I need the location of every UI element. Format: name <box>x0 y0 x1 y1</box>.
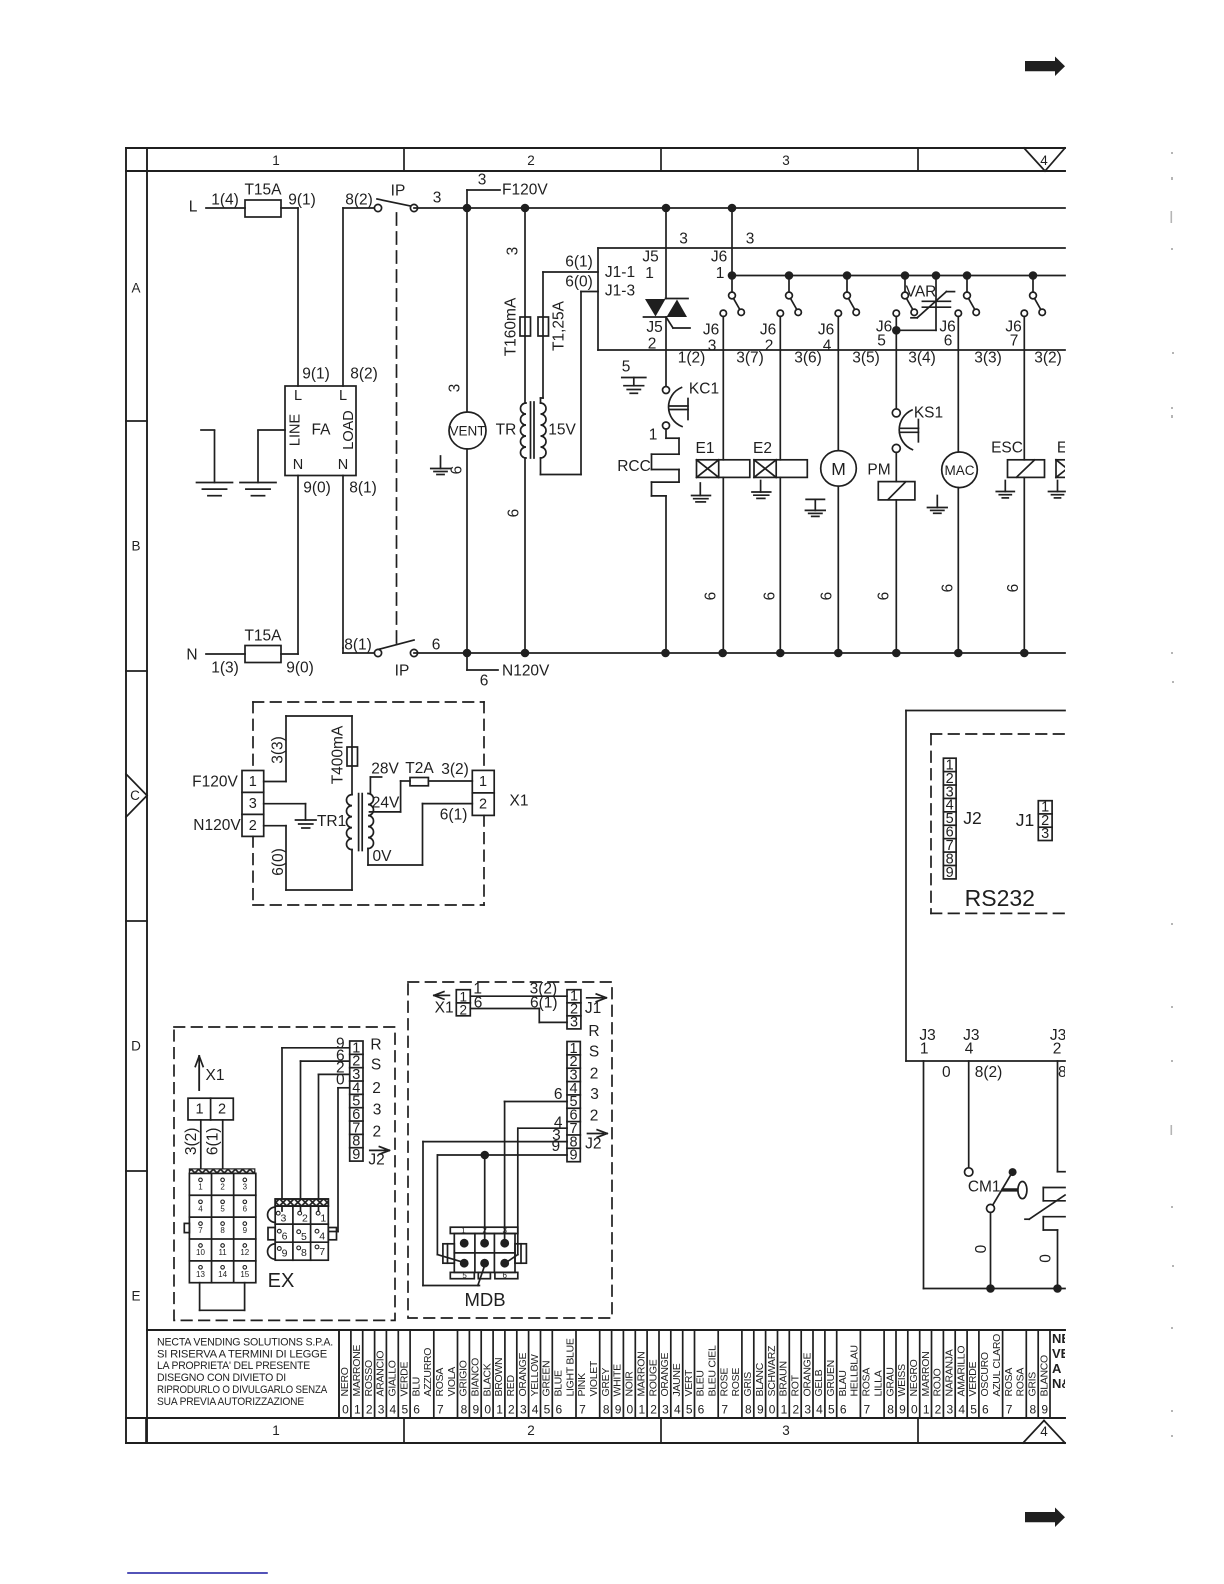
wire fuse to TR1 primary <box>351 766 353 795</box>
legend column 4 GIALLO <box>386 1330 398 1418</box>
relay coil ESC <box>1008 460 1045 478</box>
svg-text:9: 9 <box>551 1138 560 1155</box>
svg-text:MDB: MDB <box>464 1289 505 1310</box>
keypad EX 15 keys <box>189 1169 255 1283</box>
svg-text:2: 2 <box>590 1066 599 1083</box>
legend column 3 NARANJA <box>943 1330 955 1418</box>
svg-text:13: 13 <box>196 1270 205 1279</box>
svg-text:11: 11 <box>218 1248 227 1257</box>
wire X1-2 to J1-3 (MDB) <box>470 1009 567 1023</box>
relay contact J6-2 <box>777 271 801 316</box>
wire FA load N down to IP n-side <box>342 476 344 654</box>
label J3 2 (cut) <box>1050 1027 1066 1058</box>
wire J3-1 down to lower rail <box>924 1061 1066 1289</box>
svg-text:5: 5 <box>401 1403 408 1417</box>
svg-text:8(2): 8(2) <box>350 366 378 383</box>
legend column 9 WEISS <box>896 1330 908 1418</box>
legend column 7 ROSA <box>434 1330 458 1418</box>
arrow J1 (MDB) <box>585 994 606 1017</box>
svg-text:2: 2 <box>650 1403 657 1417</box>
svg-text:3(7): 3(7) <box>736 350 764 367</box>
solenoid E2 <box>753 440 807 477</box>
relay contact J6-5 <box>893 271 917 316</box>
svg-text:L: L <box>339 388 347 404</box>
wire TR secondary top to fuse T1,25A <box>540 398 542 403</box>
wire J6-4 to motor M <box>837 316 839 450</box>
fuse T160mA <box>503 297 531 356</box>
wire pin1 to T400mA <box>264 716 352 782</box>
svg-text:6(0): 6(0) <box>270 848 287 876</box>
legend column 1 BROWN <box>493 1330 505 1418</box>
bottom right solid arrow <box>1025 1508 1065 1528</box>
fuse T1,25A <box>538 300 568 351</box>
svg-text:3(5): 3(5) <box>852 350 880 367</box>
svg-text:3(2): 3(2) <box>441 761 469 778</box>
svg-text:NOIR: NOIR <box>624 1371 636 1397</box>
svg-text:BRAUN: BRAUN <box>778 1361 790 1396</box>
svg-text:2: 2 <box>792 1403 799 1417</box>
transformer TR1 <box>317 794 374 851</box>
svg-text:ORANGE: ORANGE <box>659 1352 671 1396</box>
arrow X1 (MDB) <box>434 992 454 1017</box>
svg-text:2: 2 <box>460 1002 468 1017</box>
svg-text:E2: E2 <box>753 440 772 457</box>
wire MDB pin7 <box>506 1128 567 1262</box>
legend column 5 GREEN <box>541 1330 553 1418</box>
svg-text:10: 10 <box>196 1248 205 1257</box>
junction bottom rail MAC <box>954 649 963 658</box>
junction lower rail right <box>1053 1284 1062 1293</box>
legend column 6 BLU <box>410 1330 434 1418</box>
relay contact J6-6 <box>955 271 979 316</box>
power supply dashed box TR1 <box>253 702 484 905</box>
svg-text:TR1: TR1 <box>317 813 346 830</box>
arrow J2 (EX) <box>368 1147 389 1169</box>
wire EX pin4 to keypad connector pin4 <box>329 1088 350 1232</box>
svg-text:BLUE: BLUE <box>553 1370 565 1397</box>
svg-text:VIOLA: VIOLA <box>446 1367 458 1397</box>
svg-text:9(1): 9(1) <box>302 366 330 383</box>
svg-text:9: 9 <box>352 1147 360 1163</box>
wire X1-1 to keypad <box>200 1120 202 1170</box>
internal bus J6 <box>732 275 1065 277</box>
svg-text:F120V: F120V <box>502 182 548 199</box>
svg-text:AMARILLO: AMARILLO <box>955 1346 967 1397</box>
bottom rail N120V <box>414 652 1065 654</box>
svg-text:15: 15 <box>240 1270 249 1279</box>
svg-text:8(1): 8(1) <box>344 637 372 654</box>
svg-text:SI RISERVA A TERMINI DI LEGGE: SI RISERVA A TERMINI DI LEGGE <box>157 1348 328 1360</box>
label 28V and tap stub <box>370 761 399 794</box>
svg-text:M: M <box>831 459 846 479</box>
label J6 4 <box>818 322 834 355</box>
svg-text:0: 0 <box>973 1244 990 1253</box>
wire J6-5 to KS1 <box>895 330 897 408</box>
svg-text:5: 5 <box>462 1271 467 1280</box>
legend column 8 GREY <box>600 1330 612 1418</box>
switch IP (line side) <box>374 183 417 212</box>
svg-text:T2A: T2A <box>405 760 434 777</box>
svg-text:3: 3 <box>708 338 717 355</box>
svg-text:14: 14 <box>218 1270 227 1279</box>
legend column 4 AMARILLO <box>955 1330 967 1418</box>
svg-text:6: 6 <box>413 1403 420 1417</box>
svg-text:3: 3 <box>782 1423 790 1438</box>
svg-text:8: 8 <box>1029 1403 1036 1417</box>
legend column 2 ROSSO <box>363 1330 375 1418</box>
heater resistor with strike (cut) <box>1025 1188 1065 1231</box>
svg-text:2: 2 <box>218 1101 226 1117</box>
svg-text:0: 0 <box>911 1403 918 1417</box>
svg-text:7: 7 <box>579 1403 586 1417</box>
svg-text:9: 9 <box>946 865 954 881</box>
legend column 4 YELLOW <box>529 1330 541 1418</box>
svg-text:2: 2 <box>479 797 487 813</box>
svg-text:6: 6 <box>876 592 893 601</box>
svg-text:6: 6 <box>506 509 523 518</box>
connector J1 (MDB) <box>567 989 581 1031</box>
wire rail to VENT <box>466 208 468 412</box>
legend column 0 NEGRO <box>908 1330 920 1418</box>
svg-text:0: 0 <box>769 1403 776 1417</box>
svg-text:ROJO: ROJO <box>932 1368 944 1396</box>
svg-text:4: 4 <box>823 338 832 355</box>
legend column 7 ROSA <box>1003 1330 1027 1418</box>
svg-text:6: 6 <box>944 333 953 350</box>
svg-text:1(2): 1(2) <box>678 350 706 367</box>
svg-text:9: 9 <box>757 1403 764 1417</box>
legend NECTA text block <box>157 1330 339 1418</box>
svg-text:CM1: CM1 <box>968 1179 1001 1196</box>
label J6 7 <box>1005 319 1021 350</box>
junction bottom rail ESC <box>1020 649 1029 658</box>
ground at VENT <box>440 456 442 469</box>
svg-text:6: 6 <box>840 1403 847 1417</box>
keypad bottom tab <box>200 1283 245 1311</box>
svg-text:8(1): 8(1) <box>349 480 377 497</box>
svg-text:BLANCO: BLANCO <box>1038 1355 1050 1397</box>
svg-text:3: 3 <box>1041 826 1049 842</box>
wire 6(1) fuse to J1-1 <box>543 272 598 317</box>
svg-text:SUA PREVIA AUTORIZZAZIONE: SUA PREVIA AUTORIZZAZIONE <box>157 1396 305 1408</box>
svg-text:OSCURO: OSCURO <box>979 1352 991 1396</box>
svg-text:7: 7 <box>864 1403 871 1417</box>
svg-text:1(3): 1(3) <box>211 660 239 677</box>
wire KS1 to PM <box>895 452 897 481</box>
svg-text:1: 1 <box>923 1403 930 1417</box>
ground at E1 <box>692 483 711 502</box>
svg-text:2: 2 <box>372 1123 381 1140</box>
svg-text:3: 3 <box>373 1102 382 1119</box>
legend column 1 MARRON <box>635 1330 647 1418</box>
svg-text:4: 4 <box>1040 1424 1048 1439</box>
svg-text:J6: J6 <box>703 322 719 339</box>
svg-text:0: 0 <box>1037 1254 1054 1263</box>
svg-text:T15A: T15A <box>244 628 282 645</box>
legend column 9 WHITE <box>612 1330 624 1418</box>
svg-text:6: 6 <box>480 673 489 690</box>
svg-text:GIALLO: GIALLO <box>387 1360 399 1396</box>
svg-text:1: 1 <box>320 1212 326 1224</box>
wire MDB pin8 <box>423 1142 567 1286</box>
legend column 1 MARRONE <box>351 1330 363 1418</box>
svg-text:ROSE: ROSE <box>718 1368 730 1397</box>
svg-text:GRUEN: GRUEN <box>825 1360 837 1396</box>
keypad matrix connector 3x3 <box>275 1199 328 1260</box>
wire X1-2 to keypad <box>222 1120 224 1170</box>
svg-text:6: 6 <box>982 1403 989 1417</box>
svg-text:6: 6 <box>703 592 720 601</box>
ground at MAC <box>936 496 938 508</box>
svg-text:SCHWARZ: SCHWARZ <box>766 1345 778 1396</box>
svg-text:3(4): 3(4) <box>908 350 936 367</box>
svg-text:7: 7 <box>1010 333 1019 350</box>
top right solid arrow <box>1025 57 1065 77</box>
svg-text:2: 2 <box>648 336 657 353</box>
svg-text:6: 6 <box>1005 584 1022 593</box>
relay coil PM <box>878 482 915 500</box>
border frame <box>126 148 1065 1443</box>
label J6 5 <box>876 319 892 350</box>
solenoid E (cut at edge) <box>1056 440 1067 478</box>
label J6 1 <box>711 249 727 283</box>
svg-text:X1: X1 <box>206 1067 225 1084</box>
legend column 6 OSCURO <box>979 1330 1003 1418</box>
wire 0V to X1 pin2 <box>368 804 472 865</box>
svg-text:C: C <box>130 788 140 803</box>
label 8( cut below box <box>1058 1064 1086 1081</box>
svg-text:9: 9 <box>243 1226 248 1235</box>
svg-text:J1-1: J1-1 <box>605 264 635 281</box>
svg-text:6(1): 6(1) <box>440 806 468 823</box>
svg-text:4: 4 <box>1040 153 1048 168</box>
svg-text:1: 1 <box>479 774 487 790</box>
svg-text:X1: X1 <box>435 1000 454 1017</box>
svg-text:BLEU: BLEU <box>695 1370 707 1396</box>
svg-text:TR: TR <box>496 422 517 439</box>
svg-text:2: 2 <box>765 338 774 355</box>
legend column 3 ARANCIO <box>375 1330 387 1418</box>
relay contact J6-7 <box>1021 271 1045 316</box>
node N120V stub <box>467 653 550 690</box>
svg-text:J1-3: J1-3 <box>605 283 635 300</box>
svg-text:0: 0 <box>342 1403 349 1417</box>
svg-text:6: 6 <box>762 592 779 601</box>
wire pin3 to ground <box>264 804 306 820</box>
svg-text:6: 6 <box>819 592 836 601</box>
svg-text:MARRON: MARRON <box>920 1352 932 1397</box>
legend column 9 BLANC <box>754 1330 766 1418</box>
svg-text:ROSE: ROSE <box>730 1368 742 1397</box>
svg-text:YELLOW: YELLOW <box>529 1354 541 1396</box>
wire ESC to bottom rail <box>1023 477 1025 653</box>
label J6 3 <box>703 322 719 355</box>
labels S 2 3 2 (MDB) <box>589 1044 599 1125</box>
svg-text:NECTA VENDING SOLUTIONS S.P.A.: NECTA VENDING SOLUTIONS S.P.A. <box>157 1337 333 1349</box>
svg-text:J5: J5 <box>646 319 662 336</box>
svg-text:2: 2 <box>366 1403 373 1417</box>
junction lower rail CM1 <box>986 1284 995 1293</box>
svg-text:1: 1 <box>496 1403 503 1417</box>
legend column 6 BLUE <box>552 1330 576 1418</box>
svg-text:2: 2 <box>249 818 257 834</box>
labels R S 2 3 2 <box>370 1037 381 1141</box>
svg-text:9: 9 <box>473 1403 480 1417</box>
svg-text:2: 2 <box>508 1403 515 1417</box>
junction top rail / VENT <box>463 204 472 213</box>
svg-text:N: N <box>338 457 348 473</box>
svg-text:3: 3 <box>590 1086 599 1103</box>
label J6 2 <box>760 322 776 355</box>
svg-text:4: 4 <box>965 1041 974 1058</box>
svg-text:IP: IP <box>395 663 410 680</box>
wire E1 to bottom rail <box>722 477 724 653</box>
label J5 2 <box>646 319 662 353</box>
wire J6-3 to E1 <box>722 316 724 459</box>
wire J3-2 down <box>1058 1061 1066 1172</box>
svg-text:WEISS: WEISS <box>896 1364 908 1397</box>
wire L to fuse <box>206 207 245 209</box>
switch CM1 <box>968 1168 1027 1212</box>
svg-text:2: 2 <box>527 153 535 168</box>
svg-text:RCC: RCC <box>617 458 651 475</box>
fuse T400mA <box>330 725 358 784</box>
RS232 dashed box <box>931 734 1065 913</box>
connector J2 (MDB) pins 1-9 <box>567 1041 580 1164</box>
svg-text:3: 3 <box>570 1015 578 1031</box>
svg-text:ROSA: ROSA <box>434 1368 446 1397</box>
wire M to bottom rail <box>837 486 839 653</box>
svg-text:GELB: GELB <box>813 1369 825 1396</box>
svg-text:4: 4 <box>198 1204 203 1213</box>
svg-text:8(2): 8(2) <box>975 1064 1003 1081</box>
legend column 8 GRIS <box>1026 1330 1038 1418</box>
wire E2 to bottom rail <box>779 477 781 653</box>
svg-text:5: 5 <box>301 1231 307 1243</box>
solenoid E1 <box>696 440 750 477</box>
label J6 6 <box>939 319 955 350</box>
svg-text:LOAD: LOAD <box>341 410 357 450</box>
ground chassis stub left of FA <box>197 430 233 496</box>
wire FA load L up to IP switch <box>343 208 374 386</box>
svg-text:5: 5 <box>622 359 631 376</box>
svg-text:24V: 24V <box>372 795 400 812</box>
svg-text:L: L <box>294 388 302 404</box>
svg-text:VIOLET: VIOLET <box>588 1360 600 1396</box>
svg-text:S: S <box>589 1044 599 1061</box>
ground at M <box>806 498 824 500</box>
legend column 3 ORANGE <box>659 1330 671 1418</box>
svg-text:BROWN: BROWN <box>493 1358 505 1397</box>
svg-text:3: 3 <box>447 384 464 393</box>
svg-text:KS1: KS1 <box>914 405 943 422</box>
svg-text:12: 12 <box>240 1248 249 1257</box>
wire fuse to junction <box>281 653 298 655</box>
svg-text:4: 4 <box>816 1403 823 1417</box>
svg-text:J6: J6 <box>760 322 776 339</box>
switch IP (neutral side) <box>343 640 418 680</box>
wire T2A to X1 pin1 <box>428 780 472 782</box>
legend column 3 ORANGE <box>517 1330 529 1418</box>
svg-text:3: 3 <box>280 1212 286 1224</box>
svg-text:9: 9 <box>282 1248 288 1260</box>
wire 6(0) TR secondary bottom to J1-3 <box>541 292 599 475</box>
connector X1 (MDB) <box>456 989 470 1017</box>
wire N to fuse <box>206 653 245 655</box>
svg-text:6: 6 <box>282 1230 288 1242</box>
svg-text:HELLBLAU: HELLBLAU <box>849 1345 861 1396</box>
svg-text:6: 6 <box>940 584 957 593</box>
svg-text:8: 8 <box>603 1403 610 1417</box>
legend column 6 BLEU <box>695 1330 719 1418</box>
svg-text:J6: J6 <box>818 322 834 339</box>
svg-text:4: 4 <box>532 1403 539 1417</box>
wire VENT to bottom rail <box>466 449 468 653</box>
svg-text:5: 5 <box>877 333 886 350</box>
svg-text:3: 3 <box>662 1403 669 1417</box>
svg-text:1: 1 <box>920 1041 929 1058</box>
legend column 5 GRUEN <box>825 1330 837 1418</box>
ground at ESC <box>996 481 1014 498</box>
wire J3-4 to CM1 <box>965 1061 973 1176</box>
svg-text:3: 3 <box>243 1182 248 1191</box>
wire MAC to bottom rail <box>957 488 959 653</box>
svg-text:7: 7 <box>437 1403 444 1417</box>
svg-text:1: 1 <box>272 153 280 168</box>
svg-text:8: 8 <box>301 1247 307 1259</box>
control board box (open right) <box>598 248 1065 350</box>
wire EX pin2 to keypad connector pin2 <box>301 1061 350 1211</box>
thermostat KC1 <box>663 381 720 430</box>
arrow J2 (MDB) <box>585 1130 607 1153</box>
svg-text:J5: J5 <box>642 249 658 266</box>
arrow X1 reference <box>195 1056 224 1090</box>
svg-text:3: 3 <box>520 1403 527 1417</box>
connector J1 pins 1-3 <box>1038 800 1052 843</box>
svg-text:AZZURRO: AZZURRO <box>422 1348 434 1397</box>
svg-text:2: 2 <box>1053 1041 1062 1058</box>
fan motor VENT <box>449 412 486 449</box>
wire TR primary bottom to rail <box>524 458 526 653</box>
label J3 4 <box>963 1027 979 1058</box>
svg-text:5: 5 <box>828 1403 835 1417</box>
svg-text:3(2): 3(2) <box>183 1128 200 1156</box>
svg-text:ROSA: ROSA <box>1003 1368 1015 1397</box>
svg-text:6(0): 6(0) <box>565 274 593 291</box>
legend column 8 GRIS <box>742 1330 754 1418</box>
svg-text:GRIS: GRIS <box>1027 1372 1039 1397</box>
svg-text:9(0): 9(0) <box>303 480 331 497</box>
svg-text:R: R <box>370 1037 381 1054</box>
motor M <box>821 451 857 487</box>
heater RCC <box>617 429 679 496</box>
svg-text:4: 4 <box>958 1403 965 1417</box>
svg-text:VAR: VAR <box>906 284 937 301</box>
svg-text:8: 8 <box>220 1226 225 1235</box>
top rail F120V <box>414 207 1065 209</box>
svg-text:28V: 28V <box>371 761 399 778</box>
ground at E2 <box>752 481 771 499</box>
svg-text:T15A: T15A <box>244 182 282 199</box>
svg-text:J2: J2 <box>368 1152 384 1169</box>
connector X1 (EX) <box>188 1098 233 1120</box>
keyboard dashed box EX <box>174 1027 395 1320</box>
legend column 1 MARRON <box>920 1330 932 1418</box>
svg-text:3(3): 3(3) <box>974 350 1002 367</box>
svg-text:15V: 15V <box>548 422 576 439</box>
legend right divider <box>1049 1330 1051 1418</box>
svg-text:RS232: RS232 <box>965 885 1035 911</box>
